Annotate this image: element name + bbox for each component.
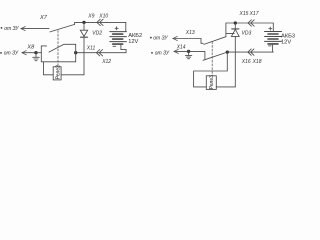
connector X11/X12 (bottom pair)	[96, 50, 102, 56]
relay contact K3.2 (lower right)	[203, 52, 227, 60]
svg-text:Х13: Х13	[185, 30, 195, 36]
junction dot J2	[234, 21, 237, 24]
wire: relay coil to VD3 anode	[216, 86, 235, 88]
node: right "+ from charger" terminal text	[150, 36, 168, 42]
svg-text:от ЗУ: от ЗУ	[153, 36, 168, 42]
wire top right bus	[226, 22, 273, 24]
wire: dot C to lower right contact	[189, 51, 205, 59]
wire bottom left bus	[76, 52, 126, 54]
wire: top bus down to battery AKB2 plus	[125, 22, 127, 31]
wire: battery AKB2 minus to bottom bus	[121, 44, 126, 53]
junction dot J1	[82, 21, 85, 24]
diode VD2	[80, 22, 87, 74]
connector X15/X17 (top pair)	[248, 20, 254, 26]
junction dot B	[74, 51, 77, 54]
svg-text:Х9: Х9	[87, 13, 94, 19]
relay contact K3.1 (upper right)	[204, 23, 234, 44]
svg-text:Х8: Х8	[26, 44, 35, 50]
diode VD3	[231, 23, 239, 87]
svg-text:12V: 12V	[281, 39, 291, 45]
svg-text:АКБ2: АКБ2	[128, 33, 142, 39]
svg-text:от ЗУ: от ЗУ	[4, 51, 19, 57]
relay contact K2.1 (upper left)	[50, 22, 75, 32]
mechanical link (dashed, left relay)	[57, 31, 59, 67]
svg-text:Х7: Х7	[39, 15, 48, 21]
wire top left bus	[75, 21, 126, 23]
svg-text:Реле3: Реле3	[209, 75, 215, 89]
svg-text:Х18: Х18	[252, 59, 262, 65]
ground (left)	[33, 53, 40, 61]
ground (right)	[185, 51, 191, 58]
battery AKB3 minus sign	[268, 45, 271, 47]
svg-text:Х16: Х16	[241, 59, 251, 65]
svg-text:VD3: VD3	[242, 30, 252, 36]
svg-text:Х17: Х17	[249, 11, 259, 17]
svg-text:VD2: VD2	[92, 30, 102, 36]
svg-text:Реле2: Реле2	[56, 65, 62, 79]
svg-text:Х14: Х14	[176, 45, 186, 51]
battery AKB2 plus sign	[115, 27, 118, 30]
node: left "+ from charger" terminal text	[1, 26, 20, 32]
node: left "- from charger" terminal text	[0, 51, 19, 57]
wire: battery AKB3 minus to bottom bus	[272, 44, 275, 52]
wire X7 arrow (input from charger)	[21, 27, 49, 31]
svg-text:от ЗУ: от ЗУ	[4, 26, 19, 32]
node: right "- from charger" terminal text	[151, 50, 170, 56]
junction dot B2	[226, 50, 229, 53]
wire: dot A to lower contact fixed terminal	[36, 46, 47, 53]
battery AKB2 minus sign	[113, 45, 116, 47]
svg-text:Х10: Х10	[98, 13, 108, 19]
relay contact K2.2 (lower left)	[49, 44, 76, 52]
wire: top bus down to battery AKB3 plus	[272, 23, 274, 32]
junction dot C	[187, 50, 190, 53]
wire: lower left loop	[41, 53, 75, 62]
svg-text:от ЗУ: от ЗУ	[155, 50, 170, 56]
mechanical link (dashed, right relay)	[211, 42, 213, 76]
battery AKB2	[110, 32, 127, 44]
battery AKB3 plus sign	[269, 27, 272, 30]
wire: relay coil to VD2 cathode	[61, 74, 84, 76]
svg-text:Х11: Х11	[86, 45, 96, 51]
svg-text:Х15: Х15	[239, 11, 249, 17]
wire X13 arrow (input from charger)	[173, 36, 201, 40]
wire: loop down to relay coil	[44, 62, 54, 75]
junction dot A	[34, 51, 37, 54]
battery AKB3	[265, 32, 282, 44]
relay coil Rele2	[53, 65, 62, 80]
wire bottom right bus	[227, 51, 272, 53]
svg-text:Х12: Х12	[101, 59, 111, 65]
svg-text:12V: 12V	[128, 39, 138, 45]
connector X16/X18 (bottom pair)	[248, 49, 254, 55]
connector X9/X10 (top pair)	[97, 19, 103, 25]
wire X8 arrow (input from charger)	[22, 51, 36, 55]
wire: right lower loop	[194, 52, 228, 87]
wire: X13 down to contact	[201, 39, 203, 44]
relay coil Rele3	[206, 75, 216, 90]
wire X14 arrow (input from charger)	[174, 49, 189, 53]
